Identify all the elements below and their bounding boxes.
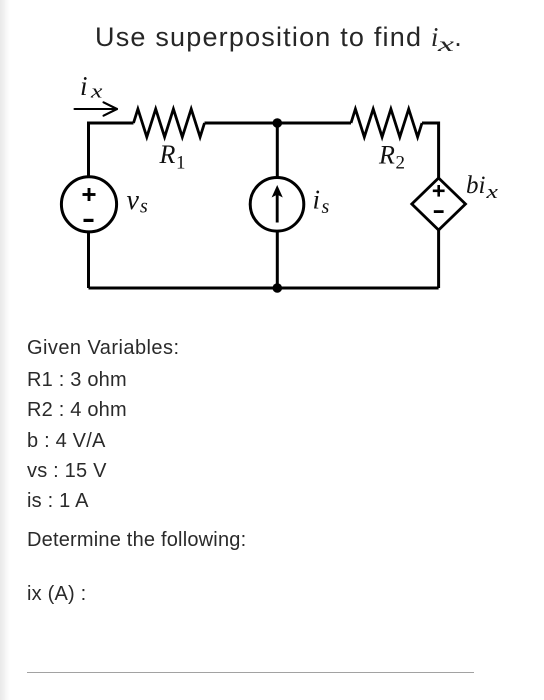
resistor R2 [351,109,422,137]
title [95,24,463,54]
svg-text:x: x [90,81,103,102]
svg-text:s: s [140,196,148,218]
svg-text:v: v [127,185,140,216]
label bi_x [466,172,498,202]
bottom divider rule [27,672,474,673]
diamond plus sign [433,185,445,197]
label vs [127,185,149,218]
wire: R2 to top-right corner down to diamond [422,123,439,178]
vs minus sign [84,219,94,222]
node: top middle junction [273,118,283,128]
is arrow [272,185,283,223]
svg-text:x: x [485,181,498,202]
left edge shading [0,0,10,700]
given variables text [27,338,179,358]
svg-text:i: i [80,71,88,101]
svg-text:1: 1 [176,152,186,173]
wire: vs bottom to bottom rail [87,232,90,288]
diamond minus sign [434,210,444,213]
resistor R1 [134,109,205,137]
current direction arrow [75,102,118,115]
node: bottom middle junction [273,283,283,293]
voltage source vs circle [61,177,116,232]
wire: middle node down to is [276,123,279,178]
label is [313,185,330,218]
label R2 [378,141,405,174]
wire: node to R2 [277,122,351,125]
wire: R1 to middle node [205,122,278,125]
svg-text:2: 2 [396,153,406,174]
svg-text:i: i [313,185,321,215]
vs plus sign [83,188,96,201]
wire: bottom rail [89,287,439,290]
current source is circle [250,178,304,232]
label R1 [159,140,186,173]
dependent source diamond [412,178,466,230]
svg-text:R: R [378,141,395,170]
wire: top-left segment [89,123,134,177]
wire: diamond bottom to bottom rail [437,230,440,288]
svg-text:R: R [159,140,176,169]
svg-text:s: s [322,196,330,218]
svg-text:bi: bi [466,172,486,199]
current label i_x [80,71,102,102]
wire: is bottom to bottom rail [276,231,279,288]
